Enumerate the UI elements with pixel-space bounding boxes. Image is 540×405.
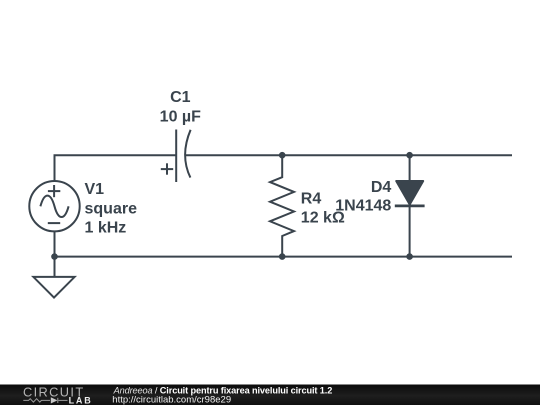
- svg-text:D4: D4: [371, 179, 392, 196]
- svg-text:1 kHz: 1 kHz: [85, 220, 127, 237]
- svg-text:http://circuitlab.com/cr98e29: http://circuitlab.com/cr98e29: [112, 394, 231, 405]
- svg-text:10 µF: 10 µF: [160, 108, 201, 125]
- svg-text:C1: C1: [170, 89, 191, 106]
- svg-text:R4: R4: [301, 191, 322, 208]
- svg-text:V1: V1: [85, 181, 105, 198]
- svg-text:square: square: [85, 200, 138, 217]
- svg-text:LAB: LAB: [69, 395, 93, 405]
- svg-text:1N4148: 1N4148: [335, 198, 391, 215]
